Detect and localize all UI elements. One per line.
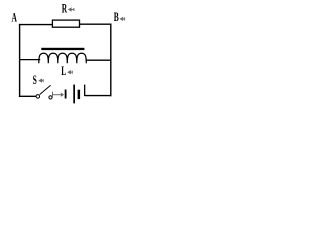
inductor L coil [39,53,87,63]
wire bottom-right (battery to right wire) [85,95,112,97]
wire left vertical [19,24,21,97]
battery plate 4 (long) [84,85,85,96]
annotation arrow at S [38,78,43,82]
svg-text:L: L [61,65,66,78]
svg-text:S: S [33,74,37,87]
switch S lever [40,85,51,94]
wire middle-right (inductor to right wire) [86,59,111,61]
annotation arrow at R [68,7,74,11]
battery plate 1 (short) [65,90,67,99]
wire right vertical [110,24,112,97]
svg-text:R: R [62,3,68,16]
switch S contact 2 [49,96,52,99]
wire middle-left (to inductor) [20,59,41,61]
wire top-right (resistor to B) [80,23,112,25]
annotation arrow at L [67,70,72,74]
switch S contact 1 [36,95,40,99]
svg-text:A: A [12,12,18,25]
svg-text:B: B [114,11,119,24]
inductor L core bar [41,48,84,50]
wire top-left (A to resistor) [19,24,53,26]
battery plate 3 (short thick negative) [78,90,81,99]
resistor R body [52,20,79,27]
annotation arrow at battery [53,92,65,97]
battery plate 2 (long positive) [73,85,75,104]
annotation arrow at B [120,17,125,21]
wire bottom-left (to switch) [19,95,36,97]
